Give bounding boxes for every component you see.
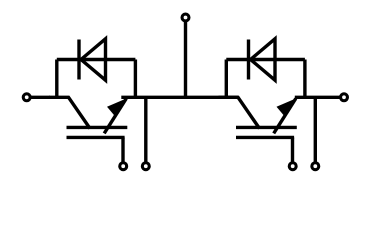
diode D2 cathode bar bbox=[247, 40, 250, 80]
diode D1 cathode bar bbox=[77, 40, 80, 80]
wire: diode D2 loop right vertical (anode side) bbox=[303, 60, 306, 98]
terminal E1 (emitter sense terminal circle) bbox=[142, 163, 149, 170]
wire: center output stem bbox=[184, 21, 187, 97]
IGBT Q1 emitter arrowhead bbox=[107, 99, 126, 117]
IGBT Q2 gate bar bbox=[236, 136, 294, 139]
terminal E2 sense (emitter sense terminal circle) bbox=[312, 163, 319, 170]
IGBT Q1 emitter line bbox=[104, 99, 126, 134]
wire: collector run and slant into Q1 body bar bbox=[49, 97, 90, 128]
IGBT Q1 body bar bbox=[67, 126, 128, 129]
IGBT Q2 emitter line bbox=[274, 99, 296, 134]
IGBT Q1 gate bar bbox=[67, 136, 125, 139]
wire: midpoint bus E1/C2 bbox=[121, 96, 238, 99]
wire: diode D1 loop right vertical (anode side) bbox=[134, 60, 137, 98]
wire: diode D1 loop left vertical (cathode side) bbox=[55, 60, 58, 98]
wire: diode D2 loop left vertical (cathode side) bbox=[225, 60, 228, 98]
terminal OUT (center output terminal circle) bbox=[182, 14, 189, 21]
terminal E2 (right emitter terminal circle) bbox=[341, 94, 348, 101]
wire: emitter bus to right terminal bbox=[295, 96, 341, 99]
wire: emitter sense drop E2 bbox=[314, 97, 317, 166]
IGBT Q2 with diode D2 bbox=[219, 39, 319, 170]
wire: emitter sense drop E1 bbox=[144, 97, 147, 166]
wire: gate G2 drop bbox=[291, 137, 294, 166]
wire: collector run and slant into Q2 body bar bbox=[219, 97, 260, 128]
wire: terminal C1 to collector corner bbox=[30, 96, 50, 99]
IGBT Q2 body bar bbox=[236, 126, 297, 129]
diode D1 triangle bbox=[81, 39, 106, 80]
IGBT Q1 with diode D1 bbox=[49, 39, 149, 170]
wire: diode D2 axis bbox=[226, 58, 305, 61]
terminal C1 (left collector terminal circle) bbox=[23, 94, 30, 101]
wire: gate G1 drop bbox=[121, 137, 124, 166]
IGBT Q2 emitter arrowhead bbox=[277, 99, 296, 117]
terminal G2 (gate terminal circle) bbox=[289, 163, 296, 170]
terminal G1 (gate terminal circle) bbox=[120, 163, 127, 170]
wire: diode D1 axis bbox=[57, 58, 136, 61]
diode D2 triangle bbox=[251, 39, 276, 80]
